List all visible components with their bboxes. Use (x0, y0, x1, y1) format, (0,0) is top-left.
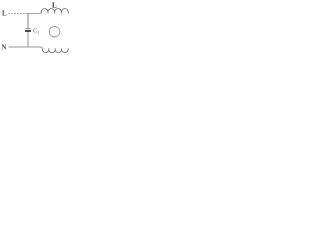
svg-text:L: L (2, 10, 7, 17)
wire top-left dashed segment (9, 13, 29, 15)
wire junction vertical (top) (27, 13, 29, 28)
lamp / indicator circle (49, 26, 60, 37)
capacitor C1 top plate (26, 28, 31, 30)
wire below capacitor (27, 32, 29, 47)
inductor L (top coil) (41, 9, 68, 14)
capacitor C1 bottom plate (25, 30, 31, 32)
wire top-right segment (28, 13, 42, 15)
svg-text:C1: C1 (33, 28, 39, 35)
svg-text:L: L (52, 1, 57, 9)
coil on bottom wire (42, 48, 68, 52)
svg-text:N: N (2, 44, 7, 52)
wire bottom transition curve (40, 47, 42, 48)
wire bottom horizontal (9, 46, 41, 48)
